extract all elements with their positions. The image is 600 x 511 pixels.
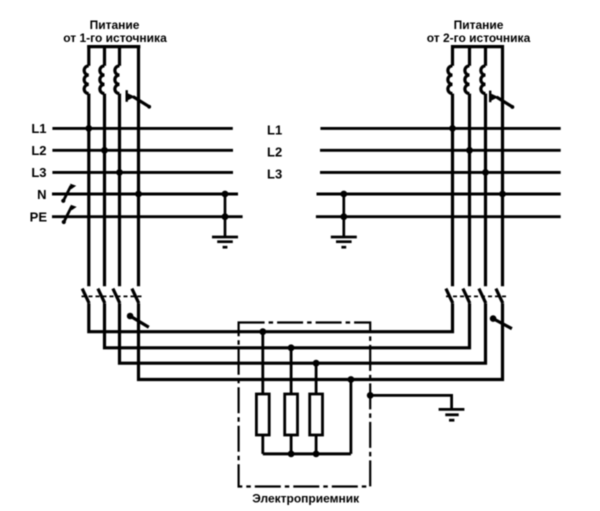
svg-text:N: N: [37, 187, 46, 202]
svg-text:Питание: Питание: [90, 18, 140, 32]
svg-text:L3: L3: [31, 165, 46, 180]
svg-text:от 1-го источника: от 1-го источника: [63, 31, 167, 45]
svg-text:L1: L1: [31, 121, 46, 136]
svg-text:L3: L3: [267, 167, 282, 182]
svg-text:PE: PE: [30, 209, 48, 224]
svg-text:L2: L2: [31, 143, 46, 158]
svg-text:от 2-го источника: от 2-го источника: [427, 31, 531, 45]
svg-text:L2: L2: [267, 145, 282, 160]
svg-text:L1: L1: [267, 123, 282, 138]
svg-text:Электроприемник: Электроприемник: [252, 492, 360, 506]
svg-text:Питание: Питание: [454, 18, 504, 32]
